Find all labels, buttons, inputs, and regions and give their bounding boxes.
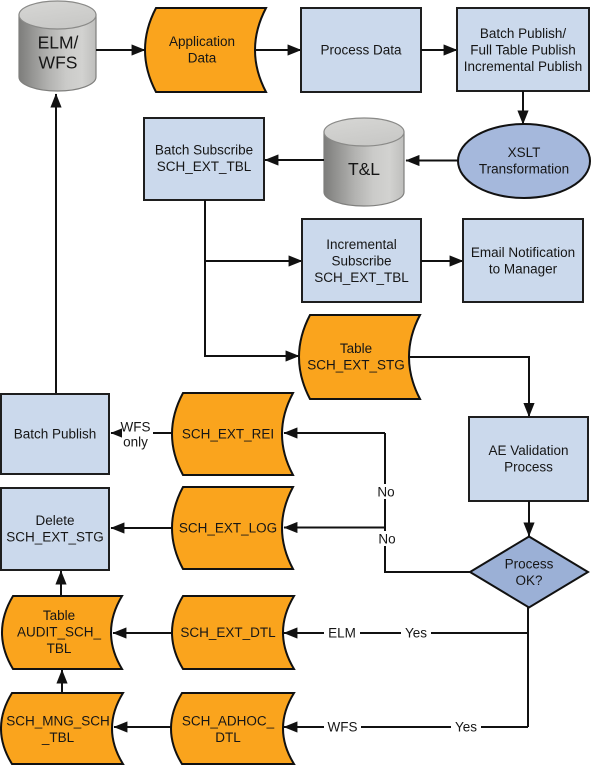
svg-text:No: No <box>377 485 394 500</box>
cylinder ELM/WFS <box>19 1 96 91</box>
wire XSLT Transformation to T&L <box>406 160 458 162</box>
wire SCH_EXT_REI to Batch Publish <box>111 432 172 434</box>
wire Batch Publish to ELM/WFS (up arrow) <box>55 94 57 394</box>
stored-data SCH_EXT_LOG <box>172 487 293 569</box>
wire Yes branch to SCH_ADHOC_DTL <box>284 726 528 728</box>
label WFS only <box>121 419 154 449</box>
wire Application Data to Process Data <box>255 49 301 51</box>
stored-data SCH_ADHOC_DTL <box>171 693 294 764</box>
wire Incremental Subscribe to Email Notification <box>421 260 463 262</box>
wire branch to Table SCH_EXT_STG <box>204 355 299 357</box>
svg-text:No: No <box>378 532 395 547</box>
stored-data SCH_MNG_SCH_TBL <box>1 693 123 764</box>
svg-text:WFS: WFS <box>328 720 358 735</box>
label WFS <box>324 719 361 735</box>
svg-text:Table: Table <box>340 341 372 356</box>
process AE Validation Process <box>469 417 588 501</box>
svg-text:Application: Application <box>169 34 235 49</box>
svg-text:SCH_EXT_STG: SCH_EXT_STG <box>6 529 104 544</box>
wire Batch Publish rect to XSLT Transformation <box>522 91 524 124</box>
wire Yes branch to SCH_EXT_DTL <box>284 632 528 634</box>
process Delete SCH_EXT_STG <box>1 488 109 570</box>
svg-text:AUDIT_SCH_: AUDIT_SCH_ <box>17 624 102 639</box>
svg-text:DTL: DTL <box>215 730 241 745</box>
svg-text:SCH_EXT_LOG: SCH_EXT_LOG <box>179 521 277 536</box>
stored-data Table SCH_EXT_STG <box>299 315 420 399</box>
svg-text:SCH_EXT_STG: SCH_EXT_STG <box>307 357 405 372</box>
svg-text:Batch Publish: Batch Publish <box>14 427 97 442</box>
wire SCH_MNG_SCH_TBL to AUDIT_SCH_TBL (up) <box>61 670 63 693</box>
wire SCH_EXT_LOG to Delete SCH_EXT_STG <box>111 527 172 529</box>
svg-text:Table: Table <box>43 608 75 623</box>
svg-text:Process: Process <box>504 460 553 475</box>
process Incremental Subscribe SCH_EXT_TBL <box>302 219 421 302</box>
svg-text:OK?: OK? <box>515 573 542 588</box>
stored-data SCH_EXT_DTL <box>172 596 294 669</box>
wire Process OK? No trunk (left then up) <box>385 433 470 572</box>
svg-text:_TBL: _TBL <box>41 730 75 745</box>
svg-text:Transformation: Transformation <box>479 162 569 177</box>
wire Table SCH_EXT_STG to AE Validation Process <box>409 357 529 417</box>
svg-text:only: only <box>123 434 148 449</box>
svg-text:AE Validation: AE Validation <box>488 443 568 458</box>
wire T&L to Batch Subscribe <box>265 159 324 161</box>
wire branch to Incremental Subscribe <box>204 260 302 262</box>
svg-text:SCH_EXT_TBL: SCH_EXT_TBL <box>157 159 252 174</box>
stored-data Application Data <box>145 8 266 92</box>
svg-text:Process Data: Process Data <box>320 43 402 58</box>
svg-text:Process: Process <box>505 556 554 571</box>
wire AUDIT_SCH_TBL to Delete SCH_EXT_STG (up) <box>60 571 62 596</box>
svg-text:Full Table Publish: Full Table Publish <box>470 43 576 58</box>
wire SCH_EXT_DTL to AUDIT_SCH_TBL <box>113 632 172 634</box>
svg-text:SCH_EXT_REI: SCH_EXT_REI <box>182 427 274 442</box>
process Batch Publish/Full Table Publish Incremental Publish <box>457 8 589 91</box>
svg-text:SCH_EXT_DTL: SCH_EXT_DTL <box>180 625 276 640</box>
wire Process OK? Yes trunk (down) <box>527 608 529 728</box>
svg-text:Data: Data <box>188 50 217 65</box>
label Yes (upper) <box>401 625 431 641</box>
svg-text:Delete: Delete <box>35 513 74 528</box>
svg-text:Batch Subscribe: Batch Subscribe <box>155 142 253 157</box>
svg-text:ELM/: ELM/ <box>38 33 79 53</box>
cylinder T&L <box>324 118 404 206</box>
process Email Notification to Manager <box>463 219 583 302</box>
svg-text:Incremental Publish: Incremental Publish <box>464 59 583 74</box>
svg-text:SCH_EXT_TBL: SCH_EXT_TBL <box>314 270 409 285</box>
svg-text:Subscribe: Subscribe <box>331 253 391 268</box>
wire Process Data to Batch Publish/Full Table Publish <box>421 49 457 51</box>
stored-data SCH_EXT_REI <box>172 393 293 475</box>
process Batch Publish <box>1 394 109 474</box>
label No (lower) <box>376 531 397 547</box>
label No (upper) <box>375 484 396 500</box>
svg-text:WFS: WFS <box>39 53 78 73</box>
svg-text:Email Notification: Email Notification <box>471 245 575 260</box>
svg-text:Batch Publish/: Batch Publish/ <box>480 26 567 41</box>
svg-text:T&L: T&L <box>348 159 380 179</box>
svg-text:TBL: TBL <box>47 641 72 656</box>
label Yes (lower) <box>451 719 481 735</box>
ellipse XSLT Transformation <box>458 124 590 198</box>
wire No branch to SCH_EXT_LOG <box>284 527 385 529</box>
svg-text:to Manager: to Manager <box>489 262 558 277</box>
wire No branch to SCH_EXT_REI <box>284 432 385 434</box>
decision Process OK? <box>470 537 588 608</box>
svg-text:Incremental: Incremental <box>326 237 397 252</box>
wire AE Validation to Process OK? <box>528 501 530 536</box>
process Batch Subscribe SCH_EXT_TBL <box>144 118 264 200</box>
wire ELM/WFS to Application Data <box>96 49 145 51</box>
svg-text:XSLT: XSLT <box>508 145 541 160</box>
wire Batch Subscribe down trunk <box>204 200 206 356</box>
svg-text:SCH_MNG_SCH: SCH_MNG_SCH <box>6 713 110 728</box>
svg-text:WFS: WFS <box>121 419 151 434</box>
wire SCH_ADHOC_DTL to SCH_MNG_SCH_TBL <box>114 726 171 728</box>
process Process Data <box>301 8 421 92</box>
svg-text:ELM: ELM <box>328 626 356 641</box>
svg-text:Yes: Yes <box>405 626 427 641</box>
stored-data Table AUDIT_SCH_TBL <box>2 596 122 669</box>
label ELM <box>324 625 360 641</box>
svg-text:SCH_ADHOC_: SCH_ADHOC_ <box>182 713 275 728</box>
svg-text:Yes: Yes <box>455 720 477 735</box>
